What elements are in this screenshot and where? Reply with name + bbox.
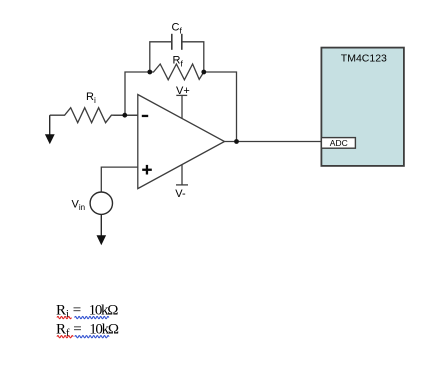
ground left wire — [49, 115, 51, 135]
wire non-inverting input — [101, 167, 138, 192]
svg-text:ADC: ADC — [330, 138, 348, 148]
ground left arrowhead — [45, 134, 55, 144]
spell squiggle red under Rf — [57, 336, 73, 338]
resistor Ri zigzag — [50, 108, 138, 123]
svg-text:V-: V- — [175, 188, 186, 200]
wire feedback rail left (Rf to inverting node) — [125, 72, 150, 115]
wire capacitor top-right — [182, 42, 204, 72]
svg-text:Vin: Vin — [72, 199, 86, 213]
source Vin circle — [90, 192, 112, 214]
power V- pin wire — [181, 164, 183, 185]
wire capacitor top-left — [150, 42, 172, 72]
resistor Rf label — [173, 55, 184, 69]
source Vin label — [72, 199, 86, 213]
power V- pin tick — [176, 184, 188, 186]
grammar squiggle blue line2 — [75, 336, 109, 338]
ground Vin arrowhead — [97, 235, 107, 245]
pin ADC box — [321, 138, 355, 149]
node junction dot Rf-right / Cf — [201, 70, 206, 75]
wire Vin to ground — [100, 214, 102, 236]
capacitor Cf plates — [172, 34, 182, 50]
block TM4C123 label — [341, 53, 387, 65]
value label Rf = 10kOhm — [56, 322, 119, 340]
grammar squiggle blue line1 — [75, 316, 109, 318]
node junction dot inverting input — [122, 113, 127, 118]
op-amp U1 triangle — [138, 95, 225, 189]
power V- label — [175, 188, 186, 200]
block U2 TM4C123 body — [321, 48, 404, 166]
pin ADC label — [330, 138, 348, 148]
svg-text:Ri: Ri — [86, 91, 96, 105]
wire feedback rail right (Rf to output node) — [204, 72, 237, 142]
svg-text:Cf: Cf — [172, 22, 183, 36]
svg-text:TM4C123: TM4C123 — [341, 53, 387, 65]
capacitor C_f label — [172, 22, 183, 36]
spell squiggle red under Ri — [57, 316, 71, 318]
power V+ pin tick — [176, 94, 187, 96]
op-amp non-inverting (+) pin mark — [142, 165, 152, 175]
resistor Ri label — [86, 91, 96, 105]
value label Ri = 10kOhm — [56, 303, 118, 321]
wire op-amp output to ADC — [225, 141, 322, 143]
resistor Rf zigzag — [150, 64, 204, 80]
node junction dot output — [234, 139, 239, 144]
op-amp inverting (-) pin mark — [142, 115, 148, 117]
wire inverting input — [114, 114, 138, 116]
node junction dot Rf-left / Cf — [147, 70, 152, 75]
power V+ label — [176, 85, 190, 97]
power V+ pin wire — [181, 95, 183, 118]
